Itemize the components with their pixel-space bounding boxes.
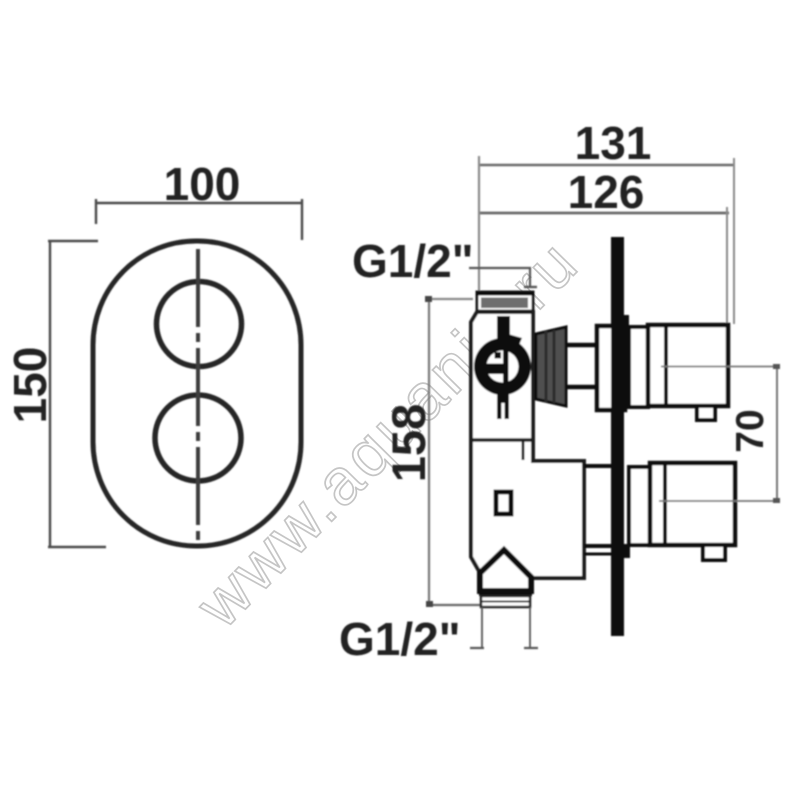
bottom leader right foot	[524, 647, 538, 649]
G1/2 top leader	[469, 268, 530, 286]
body inner step	[522, 440, 525, 460]
top flange	[477, 292, 533, 311]
port nub	[506, 334, 522, 350]
port stem top	[497, 316, 510, 342]
collar top lip	[616, 315, 629, 328]
dim 100 line	[96, 202, 302, 204]
dim 158 top tick	[425, 296, 432, 302]
trim plate oval	[93, 241, 301, 546]
dim 150 bottom extension	[48, 546, 106, 548]
upper handle tab	[697, 406, 715, 420]
svg-text:126: 126	[568, 166, 645, 218]
upper handle centerline	[661, 366, 777, 368]
svg-text:131: 131	[575, 117, 652, 169]
svg-text:G1/2": G1/2"	[339, 613, 461, 665]
dim 158 line	[428, 299, 430, 605]
top flange gasket	[481, 298, 528, 309]
G1/2 top leader foot	[524, 286, 537, 288]
port stem bottom	[497, 394, 509, 403]
lower handle centerline	[659, 500, 777, 502]
svg-text:70: 70	[729, 409, 772, 452]
dim 131 line	[478, 164, 735, 167]
dim 126 right extension	[726, 207, 728, 324]
bottom leader left foot	[470, 647, 484, 649]
neck bottom	[566, 385, 598, 390]
lower collar	[629, 467, 650, 545]
dim 70 line	[776, 367, 778, 502]
nipple collar bar	[479, 589, 532, 596]
dim 150 top extension	[48, 240, 98, 242]
bottom pentagon outlet	[480, 550, 531, 591]
dim 158 bottom extension	[428, 604, 481, 606]
dim 70 bottom tick	[773, 498, 780, 503]
port stem prong left	[497, 403, 502, 419]
bushing stripe 1	[545, 331, 548, 402]
neck top	[566, 343, 598, 348]
dim 100 right tick	[301, 199, 303, 240]
upper handle inner line	[664, 325, 668, 406]
upper handle	[648, 325, 728, 406]
upper collar	[629, 327, 648, 407]
top flange top edge	[476, 292, 534, 296]
nipple mid line	[481, 601, 530, 603]
dim 158 bottom tick	[426, 601, 433, 607]
inspection square	[496, 492, 511, 514]
lower handle inner line	[663, 463, 667, 545]
upper escutcheon plate	[597, 326, 625, 410]
port ring	[474, 338, 531, 395]
svg-text:158: 158	[382, 404, 435, 482]
dim 70 top tick	[773, 364, 780, 369]
dim 126 line	[478, 212, 729, 215]
lower sleeve top	[584, 464, 611, 468]
nipple	[481, 596, 530, 607]
dim 100 left tick	[95, 199, 97, 224]
port inner band	[485, 364, 504, 375]
dim 131 right extension	[733, 158, 735, 324]
lower handle tab	[703, 545, 725, 560]
lower sleeve bottom	[584, 544, 611, 548]
watermark www.aquanin.ru	[181, 225, 592, 642]
lower knob circle	[155, 395, 241, 481]
port inner bar	[503, 349, 509, 385]
wall plane bar	[611, 237, 624, 636]
bottom leader right	[529, 607, 531, 648]
port inner square	[495, 352, 502, 359]
valve body outline	[471, 312, 584, 578]
bushing stripe 2	[553, 330, 556, 403]
lower handle	[650, 463, 735, 545]
dims left extension line	[478, 156, 480, 296]
trapezoid bushing	[536, 327, 566, 406]
svg-text:G1/2": G1/2"	[352, 235, 474, 287]
body mid divider	[471, 438, 533, 442]
lower collar bottom lip	[616, 544, 630, 558]
vertical centerline	[196, 249, 200, 543]
lower sleeve bottom second	[584, 553, 611, 556]
dim 150 line	[49, 240, 51, 547]
upper knob circle	[157, 282, 242, 367]
port stem prong right	[505, 403, 510, 419]
svg-text:100: 100	[164, 158, 241, 210]
bottom leader left	[481, 607, 483, 648]
svg-text:150: 150	[4, 347, 56, 424]
dim 158 top extension	[428, 298, 473, 300]
